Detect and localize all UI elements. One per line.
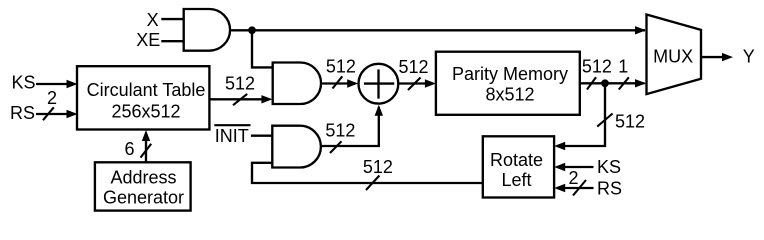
wire XE to A1 (161, 40, 183, 42)
svg-text:256x512: 256x512 (111, 101, 180, 121)
wire XOR output to Parity Memory with bus slash (398, 78, 436, 91)
svg-text:XE: XE (136, 30, 160, 50)
node INIT-bar label with overline (214, 125, 250, 146)
svg-text:512: 512 (325, 120, 355, 140)
box Address Generator (95, 162, 191, 210)
svg-text:Rotate: Rotate (490, 150, 543, 170)
wire KS into Rotate Left (554, 163, 593, 171)
AND gate A3 (INIT AND feedback) (272, 126, 321, 168)
svg-text:KS: KS (12, 73, 36, 93)
bus slash on feedback wire (366, 176, 379, 191)
wire RS into Rotate Left with bus slash (554, 180, 593, 196)
svg-text:Y: Y (743, 47, 755, 67)
wire MUX output to Y (701, 53, 733, 61)
wire INIT to AND gate A3 (251, 135, 272, 137)
svg-text:KS: KS (597, 157, 621, 177)
wire RS into Circulant Table with bus slash (36, 107, 78, 120)
svg-text:Address: Address (110, 167, 176, 187)
MUX U1 (2:1 multiplexer trapezoid) (647, 15, 702, 95)
svg-text:512: 512 (582, 56, 612, 76)
wire KS into Circulant Table (36, 80, 78, 88)
wire junction down to AND gate A2 top input (252, 30, 273, 67)
svg-text:Parity Memory: Parity Memory (452, 64, 568, 84)
svg-text:MUX: MUX (653, 47, 693, 67)
wire Parity Memory output to MUX input 1 with two bus slashes (580, 77, 646, 89)
junction dot on Parity Memory output (601, 79, 609, 87)
AND gate A1 (X AND XE) (184, 9, 230, 51)
XOR adder X1 (circle with plus) (359, 64, 399, 104)
svg-text:Generator: Generator (103, 187, 184, 207)
AND gate A2 (enable AND table word) (273, 63, 321, 105)
svg-text:INIT: INIT (215, 126, 249, 146)
svg-text:512: 512 (363, 157, 393, 177)
svg-text:RS: RS (597, 178, 622, 198)
svg-text:512: 512 (326, 57, 356, 77)
svg-text:RS: RS (10, 103, 35, 123)
svg-text:6: 6 (124, 139, 134, 159)
svg-text:2: 2 (47, 88, 57, 108)
svg-text:1: 1 (618, 56, 628, 76)
wire A1 output to MUX input 0 (230, 26, 646, 34)
svg-text:512: 512 (398, 57, 428, 77)
box Circulant Table 256x512 (77, 66, 209, 129)
svg-text:512: 512 (225, 74, 255, 94)
wire junction down and left into Rotate Left with bus slash (554, 83, 612, 150)
wire A3 output up to XOR bottom with bus slash (321, 105, 383, 153)
wire A2 output to XOR with bus slash (321, 76, 358, 88)
svg-text:Circulant Table: Circulant Table (87, 80, 206, 100)
svg-text:X: X (147, 10, 159, 30)
svg-text:512: 512 (615, 112, 645, 132)
svg-text:Left: Left (501, 170, 531, 190)
box Parity Memory 8x512 (436, 52, 580, 115)
wire X to A1 (161, 18, 183, 20)
junction dot on A1 output (248, 26, 256, 34)
box Rotate Left (483, 136, 554, 197)
svg-text:8x512: 8x512 (485, 85, 534, 105)
wire Rotate Left output feedback to A3 bottom input (252, 163, 483, 183)
svg-text:2: 2 (568, 168, 578, 188)
wire Address Generator up to Circulant Table with bus slash (141, 130, 152, 162)
wire Circulant Table output to A2 with bus slash (209, 94, 272, 105)
